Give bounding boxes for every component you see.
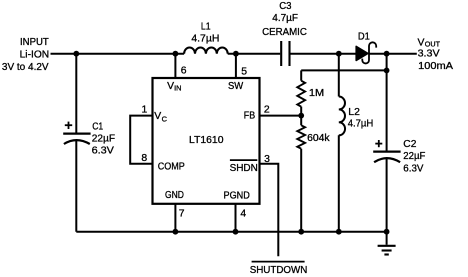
svg-text:22µF: 22µF xyxy=(403,151,425,162)
node feedback top xyxy=(384,68,390,74)
wire input to L1 xyxy=(51,53,185,55)
IC U1 LT1610 box xyxy=(153,78,260,204)
node GND rail 604k xyxy=(298,229,304,235)
resistor R 604k xyxy=(297,125,305,148)
capacitor C3 plates xyxy=(281,41,289,66)
wire ground stub xyxy=(386,232,388,245)
svg-text:FB: FB xyxy=(244,111,255,122)
svg-text:SHDN: SHDN xyxy=(230,163,258,174)
svg-text:COMP: COMP xyxy=(158,162,185,173)
wire L2 bottom to rail xyxy=(338,135,340,231)
wire feedback top horizontal xyxy=(301,69,386,71)
capacitor C2 plates xyxy=(373,152,400,163)
wire 604k to rail xyxy=(300,149,302,232)
svg-text:Li-ION: Li-ION xyxy=(20,50,50,61)
wire C1 to bottom rail xyxy=(75,140,77,232)
wire input down to C1 xyxy=(75,54,77,134)
svg-text:C: C xyxy=(162,115,168,124)
svg-text:SW: SW xyxy=(228,81,243,92)
input labels xyxy=(2,37,49,73)
svg-text:IN: IN xyxy=(174,84,181,93)
diode D1 (Schottky) xyxy=(356,42,376,63)
label C3 xyxy=(262,1,307,38)
IC pin labels xyxy=(154,81,258,202)
svg-text:4.7µH: 4.7µH xyxy=(191,34,219,45)
svg-text:4.7µH: 4.7µH xyxy=(348,118,374,129)
wire pin 5 stub xyxy=(235,54,237,78)
svg-text:L1: L1 xyxy=(201,22,211,33)
svg-text:7: 7 xyxy=(179,208,185,219)
pin SHDN (with overline) xyxy=(230,159,257,161)
svg-text:D1: D1 xyxy=(358,32,370,43)
svg-text:L2: L2 xyxy=(348,107,360,118)
wire C3 to D1 anode xyxy=(291,53,357,55)
svg-text:8: 8 xyxy=(141,153,147,164)
wire pin 6 stub xyxy=(174,54,176,78)
svg-text:OUT: OUT xyxy=(425,40,441,49)
svg-text:SHUTDOWN: SHUTDOWN xyxy=(250,265,308,276)
node input/C1 xyxy=(73,51,79,57)
svg-text:GND: GND xyxy=(165,190,184,201)
svg-text:3: 3 xyxy=(264,154,270,165)
svg-text:V: V xyxy=(154,111,161,122)
svg-text:1: 1 xyxy=(142,104,148,115)
svg-text:C3: C3 xyxy=(279,1,291,12)
svg-text:4.7µF: 4.7µF xyxy=(272,13,298,24)
svg-text:3.3V: 3.3V xyxy=(418,48,440,59)
svg-text:5: 5 xyxy=(241,67,247,78)
label VOUT xyxy=(418,38,454,73)
wire VC-COMP loop xyxy=(130,116,152,164)
node GND rail pin7 xyxy=(173,229,179,235)
wire bottom ground rail xyxy=(76,231,386,233)
wire SHDN to SHUTDOWN xyxy=(260,164,279,257)
svg-text:V: V xyxy=(418,38,425,49)
wire 1M to 604k (FB node) xyxy=(300,107,302,126)
wire C2 to rail xyxy=(386,158,388,231)
label L1 xyxy=(191,22,219,45)
node GND rail pin4 xyxy=(233,229,239,235)
svg-text:22µF: 22µF xyxy=(92,134,115,145)
svg-text:INPUT: INPUT xyxy=(20,37,49,48)
svg-text:C1: C1 xyxy=(92,122,103,133)
svg-text:2: 2 xyxy=(264,104,270,115)
node GND rail L2 xyxy=(336,229,342,235)
svg-text:C2: C2 xyxy=(403,139,416,150)
svg-text:LT1610: LT1610 xyxy=(189,135,224,146)
pin numbers xyxy=(141,66,270,220)
svg-text:604k: 604k xyxy=(307,133,330,144)
resistor R 1M xyxy=(297,81,305,107)
inductor L2 xyxy=(339,97,345,136)
node GND rail C2 xyxy=(384,229,390,235)
plus sign C2 xyxy=(375,140,382,147)
plus sign C1 xyxy=(65,122,72,129)
label C2 xyxy=(403,139,425,174)
node VIN/L1 xyxy=(173,51,179,57)
svg-text:4: 4 xyxy=(240,208,246,219)
node FB divider xyxy=(298,113,304,119)
node SW/L1 xyxy=(233,51,239,57)
wire pin 4 stub xyxy=(235,204,237,232)
wire rail junction down to L2 xyxy=(338,54,340,97)
wire to 1M top xyxy=(300,70,302,80)
capacitor C1 plates xyxy=(63,134,90,144)
svg-text:CERAMIC: CERAMIC xyxy=(262,27,307,38)
wire D1 cathode to VOUT xyxy=(370,53,417,55)
svg-text:6.3V: 6.3V xyxy=(403,163,423,174)
svg-text:V: V xyxy=(167,81,174,92)
wire pin 7 stub xyxy=(174,204,176,232)
svg-text:PGND: PGND xyxy=(224,191,250,202)
wire VOUT down to C2 xyxy=(386,54,388,152)
node C3/D1/L2 xyxy=(336,51,342,57)
label L2 xyxy=(348,107,374,129)
svg-text:3V to 4.2V: 3V to 4.2V xyxy=(2,62,49,73)
ground xyxy=(378,246,396,255)
svg-text:1M: 1M xyxy=(309,88,324,99)
svg-text:6.3V: 6.3V xyxy=(92,146,114,157)
wire L1 to C3 xyxy=(228,53,281,55)
svg-text:100mA: 100mA xyxy=(418,61,453,72)
inductor L1 xyxy=(184,47,228,53)
svg-text:6: 6 xyxy=(181,66,187,77)
label SHUTDOWN xyxy=(250,262,308,276)
label C1 xyxy=(92,122,116,157)
wire FB to divider xyxy=(260,115,302,117)
node D1/VOUT xyxy=(384,51,390,57)
